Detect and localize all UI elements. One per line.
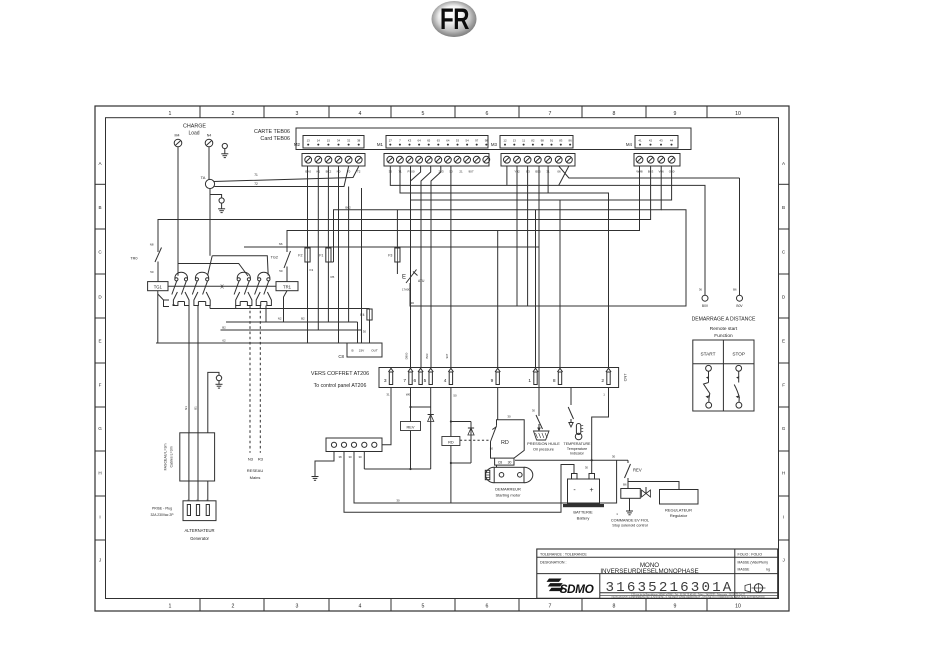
svg-text:C8: C8 [498, 461, 502, 465]
svg-text:STOP: STOP [732, 352, 745, 357]
svg-text:F3: F3 [388, 254, 392, 258]
svg-text:DESIGNATION :: DESIGNATION : [540, 561, 567, 565]
svg-text:7: 7 [549, 604, 552, 610]
svg-text:71: 71 [254, 173, 258, 177]
svg-text:E: E [98, 339, 101, 344]
svg-text:3: 3 [296, 604, 299, 610]
svg-text:B2: B2 [222, 325, 226, 329]
svg-text:R3: R3 [258, 457, 264, 462]
svg-text:30: 30 [396, 499, 400, 503]
svg-text:PRESSION HUILE: PRESSION HUILE [527, 441, 560, 446]
svg-text:F2: F2 [298, 254, 302, 258]
svg-text:ALTERNATEUR: ALTERNATEUR [184, 528, 214, 533]
svg-text:ATU: ATU [418, 279, 425, 283]
svg-text:98: 98 [541, 138, 545, 142]
svg-text:Remote start: Remote start [710, 326, 738, 332]
svg-text:Card TEB06: Card TEB06 [260, 136, 290, 142]
svg-text:B2: B2 [301, 317, 305, 321]
svg-text:8: 8 [553, 378, 556, 384]
svg-text:N1: N1 [184, 406, 188, 410]
svg-text:13: 13 [513, 138, 517, 142]
svg-text:23V: 23V [359, 348, 365, 352]
svg-text:64: 64 [446, 138, 450, 142]
svg-text:30: 30 [363, 330, 367, 334]
svg-text:Stop solenoid control: Stop solenoid control [612, 524, 648, 528]
svg-text:30: 30 [585, 466, 589, 470]
svg-text:32A 230Vac 2P: 32A 230Vac 2P [150, 513, 174, 517]
svg-text:34: 34 [337, 138, 341, 142]
svg-text:T0: T0 [347, 169, 351, 173]
svg-text:CARTE TEB06: CARTE TEB06 [254, 129, 290, 135]
svg-text:SDMO: SDMO [560, 582, 594, 596]
svg-text:J: J [99, 558, 101, 563]
svg-text:RESEAU: RESEAU [247, 468, 264, 473]
svg-text:Cables L=3m: Cables L=3m [170, 446, 174, 467]
svg-text:62: 62 [222, 338, 226, 342]
svg-text:7: 7 [549, 111, 552, 117]
svg-text:M4: M4 [626, 142, 633, 147]
svg-text:6: 6 [413, 378, 416, 384]
svg-text:M3: M3 [491, 142, 498, 147]
svg-text:F1: F1 [319, 254, 323, 258]
svg-text:Load: Load [188, 131, 199, 137]
svg-text:30: 30 [507, 415, 511, 419]
svg-text:TOLERANCE : TOLERANCE: TOLERANCE : TOLERANCE [540, 552, 587, 556]
svg-text:N2: N2 [278, 317, 282, 321]
svg-text:REV: REV [407, 424, 415, 429]
svg-text:1: 1 [528, 378, 531, 384]
svg-text:Battery: Battery [577, 516, 590, 521]
svg-text:E: E [782, 339, 785, 344]
svg-text:kg: kg [766, 568, 770, 572]
svg-text:3: 3 [296, 111, 299, 117]
svg-text:B0V: B0V [736, 304, 743, 308]
svg-text:15: 15 [327, 138, 331, 142]
svg-text:REV: REV [633, 468, 642, 473]
svg-text:W0: W0 [406, 393, 411, 397]
svg-text:91: 91 [550, 138, 554, 142]
svg-text:Function: Function [714, 333, 733, 339]
svg-text:N4: N4 [207, 134, 212, 138]
svg-text:30: 30 [508, 461, 512, 465]
svg-text:To control panel AT206: To control panel AT206 [314, 383, 367, 389]
svg-text:CE PLAN EST LA PROPRIETE DE LA: CE PLAN EST LA PROPRIETE DE LA SOCIETE -… [612, 596, 765, 599]
svg-text:OUT: OUT [371, 348, 378, 352]
svg-text:06: 06 [557, 169, 561, 173]
svg-text:38: 38 [338, 455, 342, 459]
svg-text:COMMANDE EV FIOL: COMMANDE EV FIOL [611, 518, 649, 522]
svg-text:FOLIO : FOLIO: FOLIO : FOLIO [738, 552, 763, 556]
svg-text:DEMARRAGE A DISTANCE: DEMARRAGE A DISTANCE [692, 317, 756, 323]
svg-text:6: 6 [486, 111, 489, 117]
svg-text:7: 7 [403, 378, 406, 384]
svg-text:B0V: B0V [702, 304, 709, 308]
svg-text:G: G [782, 426, 786, 431]
svg-text:9: 9 [491, 378, 494, 384]
svg-text:I: I [783, 515, 784, 520]
svg-text:CHARGE: CHARGE [183, 124, 206, 130]
svg-text:Oil pressure: Oil pressure [533, 446, 554, 451]
svg-text:RD: RD [448, 439, 454, 444]
svg-text:5: 5 [422, 111, 425, 117]
svg-text:4: 4 [359, 604, 362, 610]
svg-text:H: H [98, 471, 101, 476]
svg-text:B: B [98, 205, 101, 210]
svg-text:F: F [782, 383, 785, 388]
svg-text:14: 14 [317, 138, 321, 142]
svg-text:2: 2 [601, 378, 604, 384]
svg-text:Regulator: Regulator [670, 513, 688, 518]
svg-text:72: 72 [254, 182, 258, 186]
svg-text:907: 907 [468, 169, 473, 173]
svg-text:TG2: TG2 [271, 256, 278, 260]
svg-text:I: I [99, 515, 100, 520]
svg-text:1: 1 [169, 111, 172, 117]
svg-text:Temperature: Temperature [567, 447, 587, 451]
svg-text:44: 44 [670, 138, 674, 142]
svg-text:START: START [701, 352, 716, 357]
svg-text:TR0: TR0 [130, 257, 137, 261]
svg-text:TEMPERATURE: TEMPERATURE [564, 442, 591, 446]
svg-text:G: G [98, 426, 102, 431]
svg-text:B6: B6 [623, 483, 627, 487]
svg-text:Starting motor: Starting motor [495, 493, 521, 498]
svg-text:B: B [782, 205, 785, 210]
svg-text:30: 30 [348, 455, 352, 459]
svg-text:64: 64 [417, 138, 421, 142]
svg-text:4: 4 [444, 378, 447, 384]
svg-text:10: 10 [735, 111, 741, 117]
svg-text:REGULATEUR: REGULATEUR [665, 507, 692, 512]
svg-text:41: 41 [638, 138, 642, 142]
svg-text:54: 54 [465, 138, 469, 142]
svg-text:65: 65 [427, 138, 431, 142]
svg-text:M4: M4 [175, 134, 180, 138]
svg-text:9: 9 [674, 604, 677, 610]
svg-text:12: 12 [503, 138, 507, 142]
svg-text:86: 86 [568, 138, 572, 142]
svg-text:27: 27 [389, 138, 393, 142]
svg-text:PRISE - Plug: PRISE - Plug [152, 507, 172, 511]
svg-text:50: 50 [453, 394, 457, 398]
svg-text:BK0: BK0 [305, 169, 311, 173]
svg-text:E: E [402, 275, 406, 281]
svg-text:TR1: TR1 [283, 284, 292, 289]
svg-text:MASSE: MASSE [738, 568, 751, 572]
svg-text:42: 42 [649, 138, 653, 142]
svg-text:5: 5 [422, 604, 425, 610]
svg-text:H: H [782, 471, 785, 476]
svg-text:36: 36 [699, 288, 703, 292]
svg-text:17A00: 17A00 [402, 288, 411, 292]
svg-text:21: 21 [459, 169, 463, 173]
svg-text:30: 30 [358, 455, 362, 459]
svg-text:P100: P100 [407, 169, 414, 173]
svg-text:B6: B6 [733, 288, 737, 292]
svg-text:Indicator: Indicator [570, 451, 585, 455]
svg-text:FR: FR [440, 2, 470, 36]
svg-text:N3: N3 [248, 457, 254, 462]
svg-text:RD: RD [501, 440, 509, 446]
svg-text:K3: K3 [310, 268, 314, 272]
svg-text:T2: T2 [357, 169, 361, 173]
svg-text:TA: TA [201, 175, 206, 180]
svg-text:53: 53 [456, 138, 460, 142]
svg-text:+: + [589, 487, 593, 494]
svg-text:30: 30 [411, 301, 415, 305]
svg-text:TG1: TG1 [154, 284, 163, 289]
svg-text:11: 11 [522, 138, 525, 142]
svg-text:INVERSEURDIESELMONOPHASE: INVERSEURDIESELMONOPHASE [600, 568, 698, 575]
svg-text:B55: B55 [535, 169, 541, 173]
svg-text:5: 5 [424, 378, 427, 384]
svg-text:J: J [782, 558, 784, 563]
svg-text:6: 6 [486, 604, 489, 610]
svg-text:13: 13 [307, 138, 311, 142]
svg-text:X: X [220, 285, 224, 291]
svg-text:CN7: CN7 [623, 374, 628, 382]
svg-text:83: 83 [559, 138, 563, 142]
svg-text:31: 31 [386, 393, 390, 397]
svg-text:32: 32 [347, 138, 351, 142]
svg-text:B63: B63 [425, 353, 429, 358]
svg-text:1: 1 [169, 604, 172, 610]
svg-text:BATTERIE: BATTERIE [573, 510, 593, 515]
svg-text:97: 97 [475, 138, 479, 142]
svg-text:8: 8 [613, 604, 616, 610]
svg-text:B1: B1 [194, 406, 198, 410]
svg-text:50: 50 [490, 447, 494, 451]
svg-text:VERS COFFRET AT206: VERS COFFRET AT206 [311, 371, 369, 377]
svg-text:4: 4 [359, 111, 362, 117]
svg-text:50: 50 [279, 269, 283, 273]
svg-text:30: 30 [612, 455, 616, 459]
svg-text:2: 2 [232, 111, 235, 117]
svg-text:DEMARREUR: DEMARREUR [495, 487, 521, 492]
svg-text:M1: M1 [377, 142, 384, 147]
svg-text:B: B [351, 348, 353, 352]
svg-text:K3: K3 [408, 138, 412, 142]
svg-text:MASSE (Vide/Plein): MASSE (Vide/Plein) [738, 561, 768, 565]
svg-text:98: 98 [485, 138, 489, 142]
svg-text:B3: B3 [526, 169, 530, 173]
svg-text:50: 50 [150, 270, 154, 274]
svg-text:M2: M2 [294, 142, 301, 147]
svg-text:10: 10 [735, 604, 741, 610]
svg-text:63: 63 [437, 138, 441, 142]
svg-text:2: 2 [232, 604, 235, 610]
svg-text:30: 30 [532, 409, 536, 413]
svg-text:967: 967 [445, 353, 449, 358]
svg-text:9: 9 [674, 111, 677, 117]
svg-text:3: 3 [384, 378, 387, 384]
svg-text:C8: C8 [338, 354, 344, 359]
svg-text:D900: D900 [405, 352, 409, 359]
svg-text:F4: F4 [360, 313, 364, 317]
svg-text:R5: R5 [331, 275, 335, 279]
svg-text:43: 43 [659, 138, 663, 142]
svg-text:8: 8 [613, 111, 616, 117]
svg-text:42: 42 [172, 303, 176, 307]
svg-text:F: F [99, 383, 102, 388]
svg-text:FASCEAU L=3m: FASCEAU L=3m [164, 443, 168, 470]
svg-text:82: 82 [531, 138, 535, 142]
svg-text:Mains: Mains [250, 475, 261, 480]
svg-text:Generator: Generator [190, 536, 209, 541]
svg-text:N8: N8 [150, 243, 154, 247]
svg-text:38: 38 [357, 138, 361, 142]
svg-text:N6: N6 [279, 242, 283, 246]
